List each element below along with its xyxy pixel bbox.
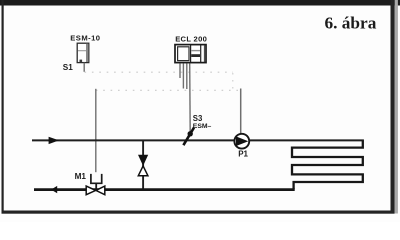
valve M1 stem [95,183,97,190]
dotted wire stub down at right end [232,73,234,89]
sensor S3 on pipe (dot and probe) [183,128,194,146]
wire from sensor S1 down [83,63,85,72]
svg-text:P1: P1 [238,150,248,159]
wire down to pump P1 [240,89,242,136]
supply pipe (top) [32,139,364,141]
svg-text:ESM–: ESM– [193,123,212,130]
border frame bottom bar [2,211,395,214]
sensor S1 body [77,43,89,62]
check valve line between pipes [142,141,144,189]
valve M1 actuator cup [91,174,102,183]
wire controller to sensor S3 [189,64,192,133]
border frame right bar [391,0,395,214]
return pipe (bottom) [34,188,295,191]
controller ECL 200 body [175,45,206,63]
flow arrow left on return pipe [51,186,57,193]
flow arrow right on supply pipe [49,137,59,144]
valve M1 body (two-way valve) [86,186,105,195]
svg-text:S3: S3 [193,114,203,123]
svg-text:S1: S1 [63,63,73,72]
check valve symbol [138,155,148,176]
svg-text:ECL 200: ECL 200 [175,34,207,43]
svg-text:ESM-10: ESM-10 [70,33,100,42]
dotted wire controller to M1 and P1 [96,89,241,91]
border frame right edge shade [395,0,398,214]
heating coil serpentine [292,140,363,189]
wire down to valve M1 [95,89,97,172]
svg-text:6. ábra: 6. ábra [325,14,377,33]
border frame left bar [2,0,4,214]
controller wires hanging below [180,64,187,90]
svg-text:M1: M1 [75,172,87,181]
border frame top bar [0,0,400,6]
pump P1 [234,134,249,149]
dotted wire S1 to controller [85,71,234,73]
